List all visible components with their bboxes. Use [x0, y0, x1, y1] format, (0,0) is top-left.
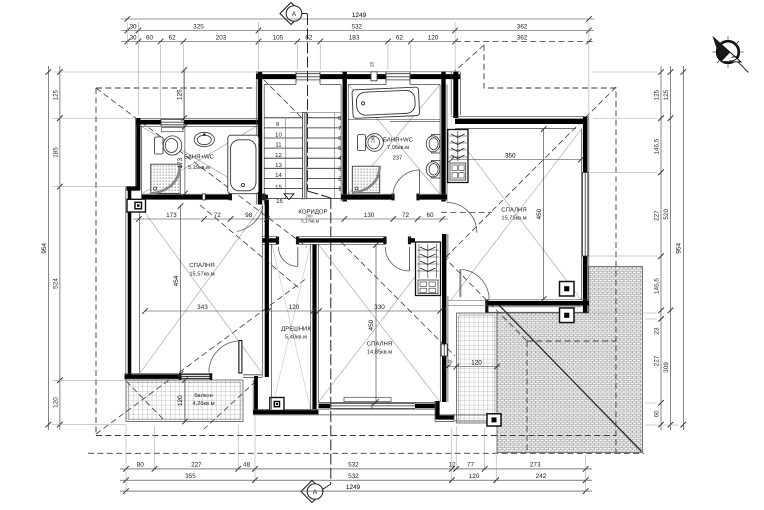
bath1 bottom wall with door opening: [141, 194, 268, 201]
bath1 interior vertical dim (173): [182, 124, 188, 197]
svg-text:298: 298: [371, 135, 376, 143]
svg-text:524: 524: [52, 278, 59, 289]
svg-text:48: 48: [243, 462, 251, 469]
stair treads: [264, 118, 341, 199]
svg-text:30: 30: [129, 23, 137, 30]
bedroom2 bottom wall with window: [319, 403, 436, 410]
svg-text:12: 12: [275, 152, 282, 159]
svg-text:120: 120: [289, 304, 300, 311]
section marker A top: [280, 3, 308, 25]
svg-text:16: 16: [276, 198, 283, 205]
svg-text:БАНЯ+WC: БАНЯ+WC: [184, 154, 215, 161]
top extension lines: [127, 22, 589, 117]
bath2 left wall (stair right wall): [341, 72, 348, 202]
svg-text:520: 520: [663, 209, 670, 220]
svg-text:4,26кв.м: 4,26кв.м: [192, 401, 214, 407]
step wall right of middle top wall: [451, 72, 460, 119]
section marker A bottom: [301, 481, 331, 503]
bath2 sink lower: [426, 161, 440, 179]
svg-text:30: 30: [129, 34, 137, 41]
north arrow: [713, 37, 749, 73]
svg-text:343: 343: [197, 304, 208, 311]
right bedroom bottom wall: [485, 300, 589, 313]
threshold lines of right bedroom door: [448, 300, 487, 305]
roof offset vertical dim (125) at top-left: [181, 67, 187, 121]
stair left wall: [256, 72, 264, 205]
bedroom2 south-east corner block: [435, 401, 454, 422]
stair direction triangle marker: [284, 194, 294, 200]
terrace kerb line: [454, 415, 497, 421]
bedroom row dim line 343 120 330: [142, 308, 443, 314]
right bedroom entry door leaf and arc: [460, 269, 489, 301]
right bedroom top wall: [451, 117, 589, 129]
small terrace dims 25 and 120: [444, 364, 500, 370]
svg-text:25: 25: [447, 359, 453, 364]
closet lower-left wall jog: [253, 376, 256, 412]
bath2 bathtub horizontal: [352, 87, 420, 118]
closet bottom wall: [253, 409, 455, 415]
corridor to right bedroom door arc: [447, 202, 477, 232]
svg-text:СПАЛНЯ: СПАЛНЯ: [501, 207, 526, 214]
svg-text:77: 77: [467, 462, 475, 469]
svg-text:173: 173: [166, 212, 177, 219]
middle top wall with two windows and niche: [256, 72, 460, 85]
wardrobe in bedroom2: [416, 242, 441, 296]
svg-text:532: 532: [351, 23, 362, 30]
closet/bedroom2 divider wall: [311, 245, 319, 410]
svg-text:62: 62: [169, 34, 177, 41]
svg-text:227: 227: [653, 210, 660, 221]
right dimension column middle (125 520 309): [668, 66, 674, 430]
bedroom1 door arc: [237, 207, 263, 232]
wardrobe in right bedroom: [448, 130, 468, 183]
column at small terrace corner: [487, 414, 501, 426]
svg-text:362: 362: [517, 34, 528, 41]
top dimension row 2 (30 325 532 362): [121, 28, 594, 34]
svg-text:325: 325: [193, 23, 204, 30]
svg-text:A: A: [313, 489, 318, 496]
staircase: [264, 113, 342, 206]
closet left wall (bedroom1 right wall): [262, 200, 271, 410]
column box in closet bottom-left: [270, 398, 284, 411]
svg-text:10: 10: [275, 131, 282, 138]
bath1 shower with quarter round tray: [151, 164, 180, 193]
bottom dimension row 2 (355 532 120 242): [120, 477, 592, 483]
bath2 shelf line: [348, 119, 440, 121]
right dimension column inner (125 146.5 227 146.5 23 227 60): [658, 66, 664, 430]
svg-text:120: 120: [471, 359, 482, 366]
bedroom1 bottom wall with balcony window and door: [125, 373, 263, 380]
svg-text:450: 450: [536, 208, 543, 219]
building walls: [125, 72, 590, 427]
svg-text:203: 203: [216, 34, 227, 41]
svg-text:362: 362: [517, 23, 528, 30]
svg-text:120: 120: [469, 473, 480, 480]
extension lines left dim column: [52, 72, 679, 425]
balcony door swing arc in bedroom1: [209, 341, 239, 373]
svg-text:227: 227: [653, 355, 660, 366]
stair step numbers left flight: [275, 121, 283, 205]
svg-text:25: 25: [370, 62, 375, 68]
svg-text:105: 105: [273, 34, 284, 41]
room labels: [184, 135, 527, 407]
bottom dimension row 1 (80 227 48 532 12 77 273): [120, 466, 592, 472]
bath2 right wall: [440, 72, 447, 202]
svg-text:130: 130: [364, 212, 375, 219]
svg-text:13: 13: [275, 162, 282, 169]
radiator under left wing window: [162, 128, 184, 132]
left wing top wall: [136, 118, 262, 126]
section line A-A: [308, 14, 331, 484]
plumbing fixtures and furniture: [151, 87, 468, 372]
svg-text:КОРИДОР: КОРИДОР: [298, 209, 327, 216]
entry pier box with column: [127, 199, 146, 212]
svg-text:350: 350: [505, 152, 516, 159]
room ceiling-slope thin diagonals: [140, 85, 582, 410]
svg-text:11: 11: [275, 142, 282, 149]
svg-text:146,5: 146,5: [653, 278, 660, 294]
svg-text:227: 227: [191, 462, 202, 469]
svg-text:62: 62: [396, 34, 404, 41]
bedroom1 dim 454 vertical: [178, 203, 184, 377]
svg-text:60: 60: [653, 410, 660, 418]
svg-text:14: 14: [275, 172, 282, 179]
big terrace hatch (weave): [497, 267, 643, 453]
bath2 door leaf and arc: [419, 170, 421, 196]
svg-text:273: 273: [530, 462, 541, 469]
svg-text:72: 72: [214, 212, 222, 219]
dimension lines: [41, 12, 686, 494]
svg-text:60: 60: [146, 34, 154, 41]
bath1 bathtub: [228, 135, 259, 194]
svg-text:532: 532: [348, 473, 359, 480]
left wall of bath1 (upper): [135, 118, 141, 194]
landing edge line: [290, 112, 341, 114]
svg-text:БАНЯ+WC: БАНЯ+WC: [383, 137, 414, 144]
svg-text:183: 183: [349, 34, 360, 41]
svg-text:355: 355: [185, 473, 196, 480]
svg-text:12: 12: [448, 462, 456, 469]
svg-text:954: 954: [676, 243, 683, 254]
svg-text:80: 80: [137, 462, 145, 469]
bottom dimension row 3 (1249): [120, 488, 592, 494]
roof outline dashed: [88, 45, 644, 453]
stair flight boundary lines: [286, 113, 335, 199]
left dimension column (125 185 524 120): [57, 66, 63, 430]
window in left wing top wall: [161, 118, 184, 126]
svg-text:СПАЛНЯ: СПАЛНЯ: [367, 341, 392, 348]
balcony hatch: [126, 380, 243, 422]
left dimension column (954): [46, 66, 52, 430]
bottom extension lines: [126, 415, 586, 492]
svg-text:7,06кв.м: 7,06кв.м: [387, 145, 409, 151]
svg-text:454: 454: [173, 275, 180, 286]
svg-text:125: 125: [52, 89, 59, 100]
bath2 bottom wall with door opening: [341, 194, 447, 201]
svg-text:125: 125: [653, 89, 660, 100]
shared wall bath2/right-bedroom lower part: [440, 234, 448, 402]
top dimension row 1 (1249): [121, 16, 594, 22]
bath1 toilet: [155, 136, 182, 155]
corridor south wall with two door openings: [262, 237, 415, 245]
svg-text:242: 242: [536, 473, 547, 480]
wall jog at left side: [127, 186, 141, 190]
svg-text:14,85кв.м: 14,85кв.м: [367, 350, 392, 356]
svg-text:балкон: балкон: [194, 392, 212, 399]
closet door arc: [279, 247, 298, 267]
svg-text:СПАЛНЯ: СПАЛНЯ: [189, 262, 214, 269]
bath2 shower: [352, 166, 379, 193]
bath1 sink: [194, 132, 214, 146]
svg-text:450: 450: [368, 319, 375, 330]
svg-text:98: 98: [245, 212, 253, 219]
roof diagonal dashed lines: [96, 45, 616, 434]
right bedroom dim 350 horizontal: [449, 157, 584, 163]
svg-text:532: 532: [348, 462, 359, 469]
svg-text:120: 120: [177, 395, 184, 406]
svg-text:185: 185: [52, 147, 59, 158]
svg-text:173: 173: [177, 157, 184, 168]
svg-text:15: 15: [275, 184, 282, 191]
svg-text:309: 309: [663, 362, 670, 373]
column on right bedroom bottom wall: [560, 282, 575, 297]
bedroom2 radiator under bottom window: [344, 397, 391, 401]
svg-text:5,19кв.м: 5,19кв.м: [188, 165, 210, 171]
stair center railing: [303, 113, 307, 199]
svg-text:1249: 1249: [352, 12, 367, 19]
balcony dim 120 vertical: [182, 377, 188, 424]
bath2 sink upper: [426, 135, 440, 154]
small terrace hatch (grid): [457, 313, 498, 423]
left wall of bedroom1 (lower): [126, 187, 140, 380]
right dimension column outer (954): [681, 66, 687, 430]
north compass: [717, 41, 739, 63]
bath2 toilet: [358, 134, 384, 152]
svg-text:120: 120: [428, 34, 439, 41]
svg-text:125: 125: [176, 89, 183, 100]
svg-text:23: 23: [653, 327, 660, 335]
svg-text:A: A: [292, 11, 297, 18]
right bedroom dim 450 vertical: [541, 126, 547, 302]
balcony door leaf: [239, 341, 242, 374]
svg-text:237: 237: [393, 155, 403, 161]
big terrace roof-edge diagonal: [498, 304, 642, 452]
svg-text:1249: 1249: [346, 484, 361, 491]
top dimension row 3 (30 60 62 203 105 62 183 62 120 362): [121, 39, 594, 45]
terrace door in bedroom2 right wall: [440, 344, 448, 356]
svg-text:146,5: 146,5: [653, 138, 660, 154]
svg-text:15,75кв.м: 15,75кв.м: [501, 216, 526, 222]
svg-text:72: 72: [402, 212, 410, 219]
svg-text:15,57кв.м: 15,57кв.м: [189, 272, 214, 278]
corridor interior dimension line (173 72 98 130 72 60): [133, 216, 448, 222]
svg-text:125: 125: [663, 89, 670, 100]
bedroom2 door arc: [385, 247, 409, 271]
svg-text:60: 60: [426, 212, 434, 219]
stair step numbers right flight: [338, 115, 342, 193]
column below right bedroom bottom wall: [560, 308, 575, 323]
bedroom2 dim 450 vertical: [373, 242, 379, 405]
svg-text:5,40кв.м: 5,40кв.м: [285, 335, 307, 341]
svg-text:5,17кв.м: 5,17кв.м: [301, 218, 319, 223]
svg-text:ДРЕШНИК: ДРЕШНИК: [281, 326, 311, 333]
svg-text:62: 62: [305, 34, 313, 41]
right bedroom right wall with tall window: [582, 117, 589, 313]
svg-text:954: 954: [41, 243, 48, 254]
svg-text:120: 120: [52, 397, 59, 408]
